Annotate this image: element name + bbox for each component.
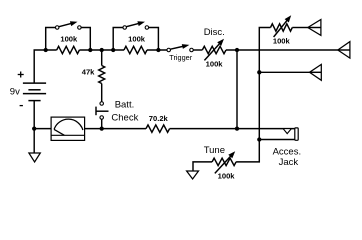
junction 47k tap [100, 48, 104, 52]
svg-text:Tune: Tune [204, 145, 225, 156]
wire battery plus to top rail [34, 50, 57, 83]
svg-text:100k: 100k [128, 34, 146, 43]
jack J1 tip contact [283, 129, 291, 134]
svg-text:Disc.: Disc. [204, 27, 225, 38]
switch S3 Trigger [167, 44, 193, 52]
switch S1 bypassing R1 [46, 21, 91, 50]
svg-text:Trigger: Trigger [169, 53, 192, 62]
junction S1 right [88, 48, 92, 52]
svg-text:100k: 100k [206, 60, 224, 69]
pushbutton S4 Batt. Check [96, 102, 109, 120]
svg-text:Jack: Jack [279, 157, 299, 168]
wire R1 to R2 [79, 49, 124, 51]
svg-text:Batt.: Batt. [115, 99, 135, 110]
junction pushbutton bottom [100, 126, 104, 130]
junction jack sleeve net [257, 137, 261, 141]
battery B1 9v [23, 83, 46, 101]
svg-text:47k: 47k [82, 68, 95, 77]
battery plus sign [18, 72, 24, 78]
potentiometer R7 Tune 100k [212, 151, 236, 173]
wire Disc pot to probe T2 [226, 49, 338, 51]
resistor R2 100k [124, 46, 147, 53]
svg-text:Check: Check [111, 113, 138, 124]
svg-text:100k: 100k [218, 172, 236, 181]
resistor R1 100k [57, 46, 80, 53]
wire trigger to Disc pot [193, 49, 202, 51]
probe electrode T2 [338, 42, 350, 59]
wire top rail to 47k [101, 50, 103, 66]
jack J1 sleeve [295, 128, 298, 140]
resistor R5 47k [99, 66, 105, 84]
wire Tune pot to ground [193, 162, 212, 171]
svg-text:70.2k: 70.2k [149, 114, 169, 123]
wire 47k to pushbutton [101, 84, 103, 102]
wire ground node to meter [34, 128, 51, 130]
junction ground node [32, 126, 36, 130]
potentiometer R3 Disc. 100k [202, 39, 226, 61]
battery minus sign [20, 105, 23, 107]
wire node B to probe T3 [259, 71, 309, 73]
junction node A top [235, 48, 239, 52]
ground G2 [187, 171, 199, 179]
wire vertical bus to Tune pot [236, 28, 270, 162]
junction S2 left [111, 48, 115, 52]
svg-text:100k: 100k [273, 37, 291, 46]
wire jack sleeve line [259, 139, 294, 141]
junction S1 left [44, 48, 48, 52]
switch S2 bypassing R2 [113, 21, 158, 50]
potentiometer R4 100k top right [271, 15, 293, 37]
wire meter to 70.2k [85, 128, 146, 130]
junction S2 right [156, 48, 160, 52]
wire pushbutton to bottom rail [101, 119, 103, 128]
meter M1 [51, 117, 85, 140]
wire 70.2k to jack tip [170, 128, 295, 130]
wire battery minus to ground [33, 101, 35, 153]
ground G1 [29, 153, 40, 162]
svg-text:Acces.: Acces. [273, 147, 302, 158]
svg-text:100k: 100k [60, 34, 78, 43]
probe electrode T3 [310, 64, 322, 80]
resistor R6 70.2k [146, 125, 170, 132]
junction node B [257, 70, 261, 74]
svg-text:9v: 9v [10, 86, 20, 97]
wire R2 to trigger switch [147, 49, 167, 51]
wire R4 to probe T1 [292, 27, 308, 29]
junction node A bottom [235, 126, 239, 130]
wire node A vertical [236, 50, 238, 129]
probe electrode T1 [308, 20, 321, 36]
